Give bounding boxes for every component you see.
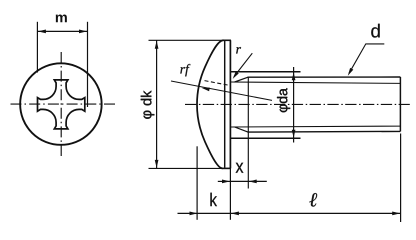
k dimension left extension line <box>196 146 198 220</box>
da top arrowhead <box>292 72 296 80</box>
label x <box>236 163 244 173</box>
horizontal centerline of front view <box>11 103 116 105</box>
dk top arrowhead <box>155 41 159 49</box>
thread runout bottom slant <box>235 127 248 132</box>
head top edge (thick over head) <box>223 39 231 41</box>
d leader line <box>349 44 384 73</box>
m dimension right extension line <box>87 22 89 107</box>
x dimension line right tail <box>248 180 266 182</box>
head rim line <box>224 41 226 168</box>
m dimension left arrowhead <box>38 30 46 34</box>
thread root top line (from underhead) <box>231 82 401 83</box>
thread major top line <box>248 76 401 78</box>
underhead collar (da) bottom line <box>231 137 301 139</box>
m dimension line <box>37 30 87 32</box>
rf arrowhead on dome arc <box>202 88 210 92</box>
label d <box>371 24 379 38</box>
rf radius line <box>171 81 272 100</box>
label rf <box>180 64 190 76</box>
phillips cross recess outline <box>38 80 85 129</box>
head bottom edge and dk bottom extension line <box>149 167 231 169</box>
screw end line <box>399 77 401 131</box>
thread major bottom line <box>248 130 401 133</box>
label phi da <box>277 88 290 112</box>
thread runout top slant <box>235 77 248 82</box>
l dimension line <box>231 212 401 214</box>
underhead collar (da) top line <box>231 71 301 73</box>
vertical centerline of front view <box>60 52 62 156</box>
dk bottom arrowhead <box>155 160 159 168</box>
rf dashed line <box>205 81 230 86</box>
head face extension line below <box>229 168 231 219</box>
x left arrowhead <box>222 180 230 184</box>
k left arrowhead <box>190 212 198 216</box>
label l (length) <box>309 193 317 207</box>
x dimension line left tail <box>218 180 231 182</box>
da dimension line <box>293 67 295 143</box>
thread root bottom line (from underhead) <box>231 125 401 128</box>
label phi dk <box>141 91 155 119</box>
k right / l left arrowhead <box>231 212 239 216</box>
d leader arrowhead <box>348 68 354 76</box>
head outline circle (front view) <box>20 63 102 145</box>
head bearing face line <box>229 40 231 168</box>
incomplete thread boundary and x extension line <box>247 77 249 188</box>
da bottom arrowhead <box>292 130 296 138</box>
x dimension line between extension lines <box>230 180 248 182</box>
label m <box>56 14 67 22</box>
head top edge and dk top extension line <box>149 39 231 41</box>
label k <box>210 193 217 206</box>
m dimension right arrowhead <box>79 30 87 34</box>
r leader line <box>234 53 252 76</box>
l right arrowhead <box>392 212 400 216</box>
dk dimension line <box>156 40 158 168</box>
l right extension line <box>400 134 402 223</box>
x right arrowhead <box>249 180 257 184</box>
r leader arrowhead <box>233 71 239 79</box>
head bottom edge (thick over head) <box>222 167 231 169</box>
screw axis centerline <box>185 103 410 105</box>
k dimension line with left tail <box>178 212 231 214</box>
m dimension left extension line <box>36 22 38 73</box>
label r <box>236 47 241 53</box>
truss head dome arc <box>197 40 224 168</box>
